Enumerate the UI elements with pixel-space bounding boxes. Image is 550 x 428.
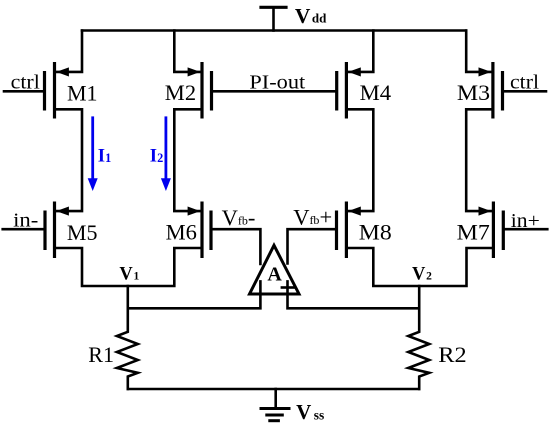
svg-text:A: A [267, 264, 282, 286]
svg-text:M6: M6 [166, 220, 197, 245]
svg-text:M5: M5 [67, 220, 98, 245]
svg-text:V2: V2 [412, 265, 432, 285]
svg-text:Vdd: Vdd [295, 4, 327, 28]
svg-text:Vfb-: Vfb- [222, 205, 256, 230]
svg-text:M7: M7 [457, 220, 490, 245]
svg-text:M4: M4 [360, 80, 392, 105]
svg-text:in-: in- [13, 209, 38, 231]
svg-text:R1: R1 [88, 342, 114, 367]
svg-text:R2: R2 [438, 342, 466, 367]
svg-text:PI-out: PI-out [249, 71, 305, 93]
svg-text:M8: M8 [359, 220, 392, 245]
svg-text:in+: in+ [511, 210, 540, 232]
svg-text:Vss: Vss [296, 400, 324, 424]
svg-text:M2: M2 [165, 80, 196, 105]
svg-text:M3: M3 [457, 80, 490, 105]
svg-text:Vfb+: Vfb+ [293, 204, 332, 229]
svg-text:ctrl: ctrl [510, 72, 539, 94]
svg-text:I1: I1 [98, 146, 111, 167]
svg-text:M1: M1 [67, 80, 98, 105]
svg-text:V1: V1 [119, 265, 139, 285]
svg-text:I2: I2 [150, 146, 163, 167]
svg-text:ctrl: ctrl [11, 72, 41, 94]
